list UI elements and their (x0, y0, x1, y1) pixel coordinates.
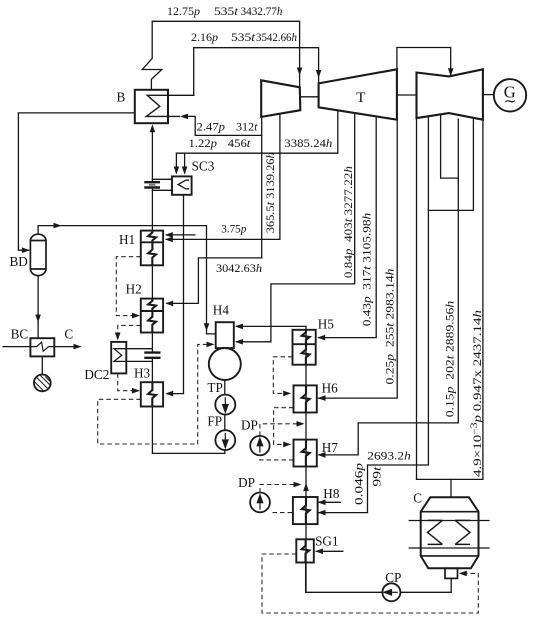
wire H1 drain dashed (116, 257, 141, 316)
wire CP discharge (306, 591, 383, 593)
svg-text:H4: H4 (213, 302, 230, 317)
deaerator H4 (209, 322, 241, 380)
heater H1 (141, 231, 163, 266)
wire DC2 drain dashed to H3 (118, 373, 134, 390)
svg-text:DP: DP (238, 475, 255, 490)
svg-text:DC2: DC2 (84, 367, 109, 382)
capacitor blind above SC3 (144, 182, 160, 187)
wire H1 extraction 3.75p (167, 114, 280, 240)
bolt H5 upper cell (302, 330, 310, 344)
svg-text:1.22p: 1.22p (189, 137, 218, 150)
heater H3 (141, 382, 163, 406)
wire CP suction from hotwell (400, 578, 451, 592)
wire BC water in (3, 346, 30, 348)
wire boiler blowdown to BD (18, 113, 134, 250)
wire cold reheat return to boiler (187, 116, 262, 135)
wire boiler sigma top exit (168, 94, 194, 96)
wire H2 drain dashed to DC2 (118, 325, 141, 334)
turbine T IP (319, 69, 397, 119)
bolt H6 (302, 385, 310, 412)
pump FP (215, 430, 235, 450)
bolt H1 upper cell (148, 231, 156, 243)
wire H3 drain dashed to H4 (98, 344, 208, 444)
wire SG1 gland steam stub (317, 550, 343, 552)
arrowhead H5 drain into H6 (283, 391, 291, 397)
wire 1.22p extraction line (176, 110, 337, 153)
svg-text:T: T (356, 90, 365, 106)
wire H1 upper stub (167, 234, 195, 236)
arrowhead extraction 7 into H7 (318, 452, 326, 458)
heater H5 (293, 330, 316, 365)
arrowhead blowdown into BD (22, 247, 30, 253)
svg-text:535t: 535t (231, 31, 256, 44)
gland steam heater SG1 (296, 539, 314, 562)
wire H7 drain to DP (260, 455, 294, 460)
arrowhead stub into H8 (318, 500, 326, 506)
pump TP (215, 395, 235, 415)
blowdown vessel BD (30, 234, 46, 275)
svg-text:0.25p 255t 2983.14h: 0.25p 255t 2983.14h (384, 268, 397, 384)
arrowhead condensate flow marker (303, 483, 309, 491)
bolt H1 lower cell (148, 242, 156, 265)
drain sink hatched circle (34, 375, 51, 392)
arrowhead extraction 1 into H1 (165, 237, 173, 243)
wire SC3 drop left (175, 153, 177, 173)
heater H6 (294, 385, 317, 412)
arrowhead feedwater into boiler (150, 124, 156, 132)
wire BC to drain circle (41, 356, 43, 374)
wire H5 drain dashed to H6 (273, 357, 292, 394)
bolt H2 upper cell (148, 299, 156, 311)
svg-text:3.75p: 3.75p (221, 223, 246, 236)
svg-text:0.43p 317t 3105.98h: 0.43p 317t 3105.98h (361, 213, 374, 327)
wire SC3 drop right (184, 153, 186, 173)
wire H4 to TP to FP feed (224, 380, 226, 395)
svg-text:2.16p: 2.16p (191, 31, 218, 44)
svg-text:535t: 535t (214, 5, 239, 18)
arrowhead crossover into LP (448, 68, 454, 76)
wire DP8 suction dashed (270, 512, 292, 514)
svg-text:H6: H6 (322, 380, 339, 395)
wire DP7 discharge dashed (260, 424, 297, 436)
arrowhead extraction 4 into H4 (235, 339, 243, 345)
pump DP lower (250, 493, 270, 513)
arrowhead reheat steam into T (316, 70, 322, 78)
arrowhead DP discharge upper (297, 421, 305, 427)
turbine HP (261, 69, 483, 119)
wire crossover T to LP (397, 48, 451, 76)
svg-text:H7: H7 (322, 440, 339, 455)
bolt SG1 (302, 539, 310, 562)
svg-text:2.47p: 2.47p (197, 121, 226, 134)
arrowhead gland steam into SG1 (315, 549, 323, 555)
svg-text:4.9×10−3p 0.947x 2437.14h: 4.9×10−3p 0.947x 2437.14h (469, 310, 484, 477)
wire H2 steam (167, 258, 262, 304)
heater H7 (294, 440, 317, 467)
wire H7 steam 0.15p merge (441, 116, 459, 179)
arrowhead SC3 steam into H3 (165, 391, 173, 397)
wire DP8 discharge dashed (260, 485, 294, 493)
wire H4 steam 0.84p (237, 113, 355, 342)
wire DC2 feed stubs (126, 348, 152, 350)
svg-text:TP: TP (207, 380, 222, 395)
svg-text:365.5t 3139.26h: 365.5t 3139.26h (264, 152, 277, 233)
wire H8 upper stub (319, 501, 340, 503)
wire condenser header (417, 478, 483, 480)
svg-text:C: C (64, 326, 73, 341)
svg-text:456t: 456t (228, 137, 251, 150)
arrowhead BD drain to BC (35, 315, 41, 323)
arrowhead extraction 5 into H5 (317, 335, 325, 341)
wire BC out C (54, 346, 74, 348)
wire H6 drain dashed to H7 (274, 408, 294, 445)
svg-text:312t: 312t (236, 121, 258, 134)
svg-text:H5: H5 (318, 316, 335, 331)
wire LP left exhaust (416, 118, 418, 479)
arrowhead H1 drain into H2 (132, 313, 140, 319)
arrowhead DP discharge lower (294, 482, 302, 488)
svg-text:DP: DP (241, 417, 258, 432)
arrowhead SG1 drain into hotwell (459, 571, 467, 577)
arrowhead condensate into H4 (235, 324, 243, 330)
wire cooling water lower (409, 547, 489, 549)
wire BD flash steam to H4 (38, 226, 216, 334)
svg-text:3385.24h: 3385.24h (284, 137, 332, 150)
heater H8 (293, 497, 318, 524)
bolt H5 lower cell (302, 344, 310, 365)
svg-text:12.75p: 12.75p (167, 5, 200, 18)
drain cooler DC2 (111, 342, 126, 374)
wire condensate riser (237, 326, 306, 592)
wire SC3 outlet to H3 (167, 195, 184, 394)
arrowhead into SC3 left (174, 167, 180, 175)
arrowhead BC outlet C (74, 344, 82, 350)
bolt H8 (302, 497, 310, 524)
generator G (494, 79, 526, 111)
hotwell box (445, 568, 458, 578)
wire turbine shafts (300, 96, 318, 98)
heater H2 (141, 299, 163, 333)
svg-text:BD: BD (10, 254, 28, 269)
svg-text:H8: H8 (323, 486, 340, 501)
wire HP exhaust down (261, 117, 263, 258)
svg-text:∼: ∼ (504, 94, 517, 110)
heater internal zigzags (148, 231, 310, 563)
svg-text:0.15p 202t 2889.56h: 0.15p 202t 2889.56h (443, 301, 456, 418)
svg-text:SC3: SC3 (192, 159, 215, 174)
bolt H2 lower cell (148, 311, 156, 333)
svg-text:0.84p 403t 3277.22h: 0.84p 403t 3277.22h (342, 166, 355, 278)
arrowhead BD steam down to H4 (204, 323, 210, 331)
svg-text:CP: CP (385, 570, 401, 585)
arrowhead into SC3 right (182, 167, 188, 175)
arrowhead extraction 2 into H2 (165, 301, 173, 307)
svg-text:B: B (117, 90, 126, 105)
arrowhead HP drains into H4 (207, 342, 215, 348)
svg-text:3042.63h: 3042.63h (216, 262, 262, 275)
arrowhead main steam into HP (297, 68, 303, 76)
boiler B (135, 90, 168, 123)
arrowhead cold reheat into boiler (180, 114, 188, 120)
wire SC3 feed stubs (152, 178, 172, 180)
bolt H7 (302, 440, 310, 467)
arrowhead extraction 6 into H6 (318, 395, 326, 401)
svg-text:H1: H1 (119, 232, 135, 247)
svg-text:C: C (413, 491, 422, 506)
blowdown cooler BC (30, 338, 54, 356)
wire boiler flash riser (142, 21, 162, 90)
wire H6 steam 0.25p (319, 120, 398, 398)
wire LP right exhaust (482, 120, 484, 480)
svg-text:2693.2h: 2693.2h (367, 450, 411, 463)
arrowhead H6 drain into H7 (283, 442, 291, 448)
condenser C (421, 497, 479, 568)
wire H5 steam 0.43p (319, 117, 376, 338)
steam cooler SC3 (172, 176, 192, 194)
pump CP (382, 583, 400, 601)
wire main steam 12.75p line (152, 21, 299, 86)
svg-text:3542.66h: 3542.66h (256, 31, 297, 44)
arrowhead extraction 8 into H8 (318, 510, 326, 516)
wire feedwater riser H3 to H1 (151, 407, 153, 454)
svg-text:99t: 99t (371, 466, 384, 487)
svg-text:SG1: SG1 (315, 534, 338, 549)
arrowhead H2 drain into DC2 (115, 333, 121, 341)
wire H8 steam 0.046p merge (428, 119, 473, 210)
svg-text:3432.77h: 3432.77h (241, 5, 283, 18)
wire SG1 drain dashed to condenser (262, 554, 478, 613)
svg-text:0.046p: 0.046p (353, 463, 366, 505)
wire BD bottom to BC (37, 276, 39, 339)
wire cooling water upper (409, 520, 489, 522)
svg-text:H3: H3 (134, 366, 151, 381)
arrowhead stub into H1 (165, 232, 173, 238)
wire SG1 to CP junction (305, 563, 307, 593)
arrowhead BD flash steam (54, 223, 62, 229)
wire hot reheat 2.16p line (194, 48, 319, 96)
arrowhead DC2 drain into H3 (132, 388, 140, 394)
bolt H3 (148, 382, 156, 406)
pump DP upper (250, 436, 269, 455)
turbine LP double flow (417, 69, 483, 119)
svg-text:FP: FP (207, 414, 222, 429)
svg-text:H2: H2 (126, 282, 142, 297)
capacitor blind above H3 (144, 353, 160, 358)
svg-text:BC: BC (11, 326, 29, 341)
